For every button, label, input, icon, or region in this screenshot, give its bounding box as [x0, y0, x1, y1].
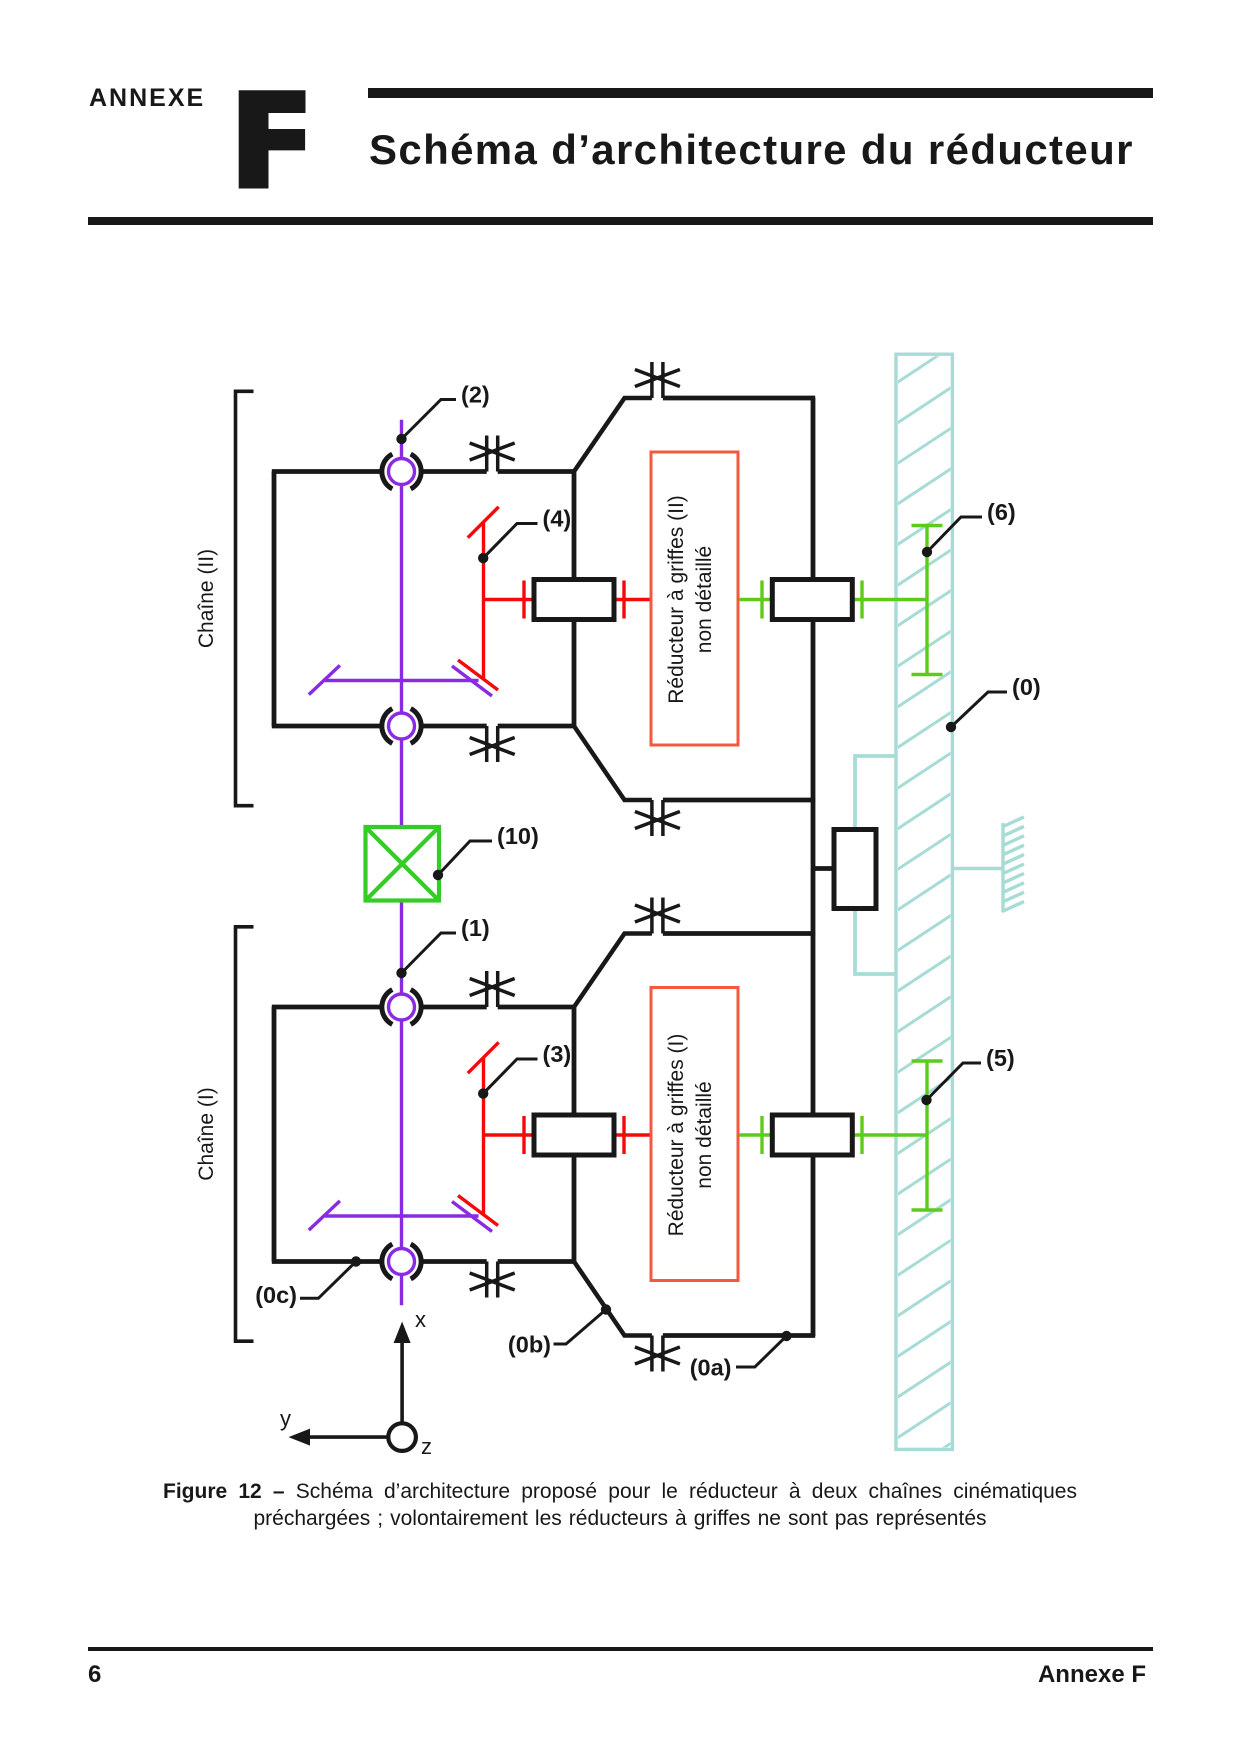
frame support bracket (0) around output bearing [855, 756, 896, 974]
footer rule [88, 1647, 1153, 1651]
svg-text:Chaîne (I): Chaîne (I) [195, 1087, 218, 1180]
bracket chain (II) [236, 391, 254, 805]
housing of chain (II) - inner box [272, 472, 574, 727]
bracket chain (I) [236, 927, 254, 1341]
svg-text:z: z [421, 1434, 432, 1459]
svg-text:Réducteur à griffes (II): Réducteur à griffes (II) [665, 495, 688, 704]
footer annexe label [846, 1661, 1146, 1689]
svg-text:(6): (6) [987, 499, 1016, 525]
label (4) bevel pinion chain II [478, 506, 571, 564]
coupling block on output line chain (I) [772, 1115, 852, 1155]
header title [369, 126, 1134, 174]
wire: output shaft vertical line [811, 398, 816, 1336]
hatched wall of frame part (0) [890, 342, 958, 1483]
rigid joint on outer top line chain (II) [635, 362, 680, 398]
rigid joint on outer bottom line chain (I) [635, 1336, 680, 1372]
elastic coupling (10) green box with cross [366, 827, 440, 901]
coupling block on output line chain (II) [772, 580, 852, 620]
rigid joint on outer top line chain (I) [635, 898, 680, 934]
gear wheel (5) green on frame [912, 1061, 943, 1210]
svg-text:Réducteur à griffes (I): Réducteur à griffes (I) [665, 1034, 688, 1237]
svg-text:(4): (4) [543, 506, 572, 532]
header word ANNEXE [89, 84, 205, 113]
bearing on input shaft bottom chain (I) [382, 1244, 421, 1279]
rigid joint on bottom housing line chain (II) [470, 726, 515, 762]
label (1) input shaft chain I [396, 915, 489, 978]
housing outer top line chain (I) [574, 934, 815, 1008]
bevel crown wheel on input shaft chain (I) purple [309, 1201, 492, 1232]
svg-text:(10): (10) [497, 823, 539, 849]
wire: stub to output bearing [813, 866, 834, 871]
label (10) coupling [433, 823, 539, 880]
header big letter F [0, 0, 320, 200]
housing outer top line chain (II) [574, 398, 815, 472]
claw reducer box chain (II) [651, 452, 738, 745]
svg-text:(0): (0) [1012, 674, 1041, 700]
output shaft green chain (II) [739, 581, 927, 619]
label (0b) housing [508, 1304, 611, 1357]
housing of chain (I) - inner box [272, 1007, 574, 1262]
claw reducer box chain (I) [651, 988, 738, 1281]
output shaft green chain (I) [739, 1116, 927, 1154]
bearing on input shaft top chain (II) [382, 454, 421, 489]
housing outer bottom line chain (I) [574, 1262, 815, 1336]
rigid joint on top housing line chain (II) [470, 436, 515, 472]
label (6) gear chain II [922, 499, 1016, 557]
header rule [88, 217, 1153, 225]
svg-text:(0c): (0c) [255, 1282, 297, 1308]
label (3) bevel pinion chain I [478, 1041, 571, 1099]
svg-text:y: y [280, 1406, 291, 1431]
ground / frame anchor symbol [952, 817, 1024, 912]
label (5) gear chain I [921, 1045, 1014, 1105]
bevel pinion shaft (3) red [458, 1042, 651, 1225]
header top bar [368, 88, 1153, 98]
rigid joint on outer bottom line chain (II) [635, 800, 680, 836]
label (0a) housing [690, 1331, 792, 1381]
rigid joint on bottom housing line chain (I) [470, 1262, 515, 1298]
svg-text:non détaillé: non détaillé [693, 1081, 716, 1188]
svg-text:(3): (3) [543, 1041, 572, 1067]
housing outer bottom line chain (II) [574, 726, 815, 800]
coupling block on inner housing chain (II) [534, 580, 614, 620]
figure caption line 2 [0, 1507, 1240, 1531]
footer page number [88, 1661, 101, 1689]
gear wheel (6) green on frame [912, 526, 943, 675]
bevel crown wheel on input shaft chain (II) purple [309, 665, 492, 696]
figure caption line 1 [163, 1480, 1077, 1504]
svg-text:(5): (5) [986, 1045, 1015, 1071]
rigid joint on top housing line chain (I) [470, 971, 515, 1007]
svg-text:(1): (1) [461, 915, 490, 941]
output bearing block on frame [834, 830, 876, 909]
label (0c) housing [255, 1256, 361, 1308]
label (0) frame [946, 674, 1041, 732]
svg-text:Chaîne (II): Chaîne (II) [195, 549, 218, 648]
bevel pinion shaft (4) red [458, 507, 651, 690]
svg-text:(2): (2) [461, 382, 490, 408]
coupling block on inner housing chain (I) [534, 1115, 614, 1155]
coordinate frame x-y-z [280, 1307, 432, 1459]
svg-text:(0a): (0a) [690, 1355, 732, 1381]
svg-text:non détaillé: non détaillé [693, 546, 716, 653]
bearing on input shaft top chain (I) [382, 990, 421, 1025]
bearing on input shaft bottom chain (II) [382, 709, 421, 744]
input shaft (1)-(2) purple vertical line [400, 420, 403, 827]
svg-text:(0b): (0b) [508, 1332, 551, 1358]
svg-text:x: x [415, 1307, 426, 1332]
label (2) input shaft chain II [396, 382, 489, 445]
